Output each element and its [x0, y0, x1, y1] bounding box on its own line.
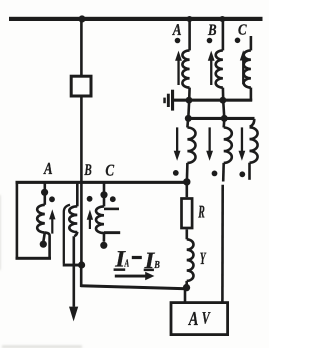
svg-text:B: B	[207, 22, 217, 39]
svg-text:B: B	[154, 259, 160, 271]
svg-text:A: A	[172, 20, 182, 39]
svg-text:Y: Y	[200, 248, 207, 268]
svg-text:A: A	[124, 258, 129, 270]
svg-text:B: B	[84, 161, 92, 179]
svg-text:C: C	[238, 22, 247, 39]
svg-text:C: C	[105, 161, 115, 180]
svg-text:A: A	[43, 159, 52, 178]
svg-text:R: R	[198, 202, 205, 222]
svg-text:A: A	[187, 308, 198, 330]
svg-text:V: V	[202, 309, 211, 328]
